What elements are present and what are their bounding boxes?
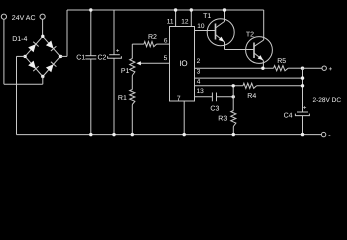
resistor R1 body	[130, 90, 135, 105]
wire pin 3 to output bus	[195, 77, 303, 79]
junction T2 emitter R5 line	[261, 67, 264, 70]
wire bridge left node out	[17, 55, 26, 57]
wire pin 4 to R4	[195, 85, 243, 87]
svg-text:2-28V DC: 2-28V DC	[313, 97, 342, 104]
svg-text:C4: C4	[284, 113, 293, 120]
wire C1 top	[90, 10, 92, 56]
wire bridge bottom node down	[42, 77, 44, 85]
svg-text:6: 6	[164, 37, 168, 44]
junction C1 bottom rail	[89, 133, 92, 136]
svg-text:R5: R5	[277, 58, 286, 65]
junction pin11 top rail	[174, 8, 177, 11]
wire T1 emitter to T2 base	[225, 49, 255, 51]
regulator IC U1 (IO) box	[170, 27, 195, 102]
svg-text:11: 11	[167, 19, 174, 26]
T2 emitter diagonal	[254, 53, 263, 60]
svg-text:R2: R2	[148, 34, 157, 41]
wire R2 corner down to pot	[131, 44, 133, 58]
terminal output plus	[322, 66, 326, 70]
wire left terminal down	[3, 19, 5, 84]
capacitor C2	[109, 54, 120, 56]
junction pin12 top rail	[190, 8, 193, 11]
capacitor C3	[211, 93, 213, 102]
bridge edge wire left-bottom	[25, 56, 43, 76]
wire pin4 node down to R3	[232, 86, 234, 111]
wire pot to R1	[131, 76, 133, 90]
bridge edge wire bottom-right	[43, 56, 61, 76]
T2 base bar	[253, 43, 255, 59]
bridge edge wire left-top	[25, 36, 43, 56]
node bridge top	[41, 35, 44, 38]
junction bus pin3 line	[301, 76, 304, 79]
svg-text:C3: C3	[210, 106, 219, 113]
junction C1 top rail	[89, 8, 92, 11]
svg-text:P1: P1	[121, 68, 130, 75]
svg-text:2: 2	[197, 58, 201, 65]
svg-text:10: 10	[197, 23, 205, 30]
wire pin 10 to T1 base	[195, 30, 216, 32]
wire R1 bottom	[131, 105, 133, 135]
wire pin 7	[183, 101, 185, 135]
svg-text:5: 5	[164, 55, 168, 62]
wire C1 bottom	[90, 59, 92, 135]
wire top rail	[67, 9, 264, 11]
svg-text:7: 7	[177, 96, 181, 103]
T1 collector diagonal	[216, 22, 225, 29]
svg-text:IO: IO	[179, 59, 187, 68]
wire pin5 to wiper	[141, 62, 170, 64]
svg-text:R4: R4	[247, 93, 256, 100]
capacitor C4	[297, 111, 308, 113]
wire C2 bottom	[113, 58, 115, 134]
T1 emitter arrowhead	[219, 37, 225, 42]
svg-text:R1: R1	[118, 95, 127, 102]
terminal output minus	[321, 132, 325, 136]
junction R1 bottom rail	[131, 133, 134, 136]
junction C2 bottom rail	[112, 133, 115, 136]
transistor T2 circle	[246, 37, 273, 64]
svg-text:C1: C1	[76, 55, 85, 62]
svg-text:4: 4	[197, 78, 201, 85]
wire output bus down	[302, 68, 304, 112]
svg-text:+: +	[116, 48, 120, 54]
T1 collector riser	[224, 10, 226, 22]
wire pin 11	[175, 10, 177, 27]
wire to plus terminal	[303, 67, 323, 69]
svg-text:D1-4: D1-4	[12, 36, 27, 43]
T2 collector riser	[263, 10, 265, 40]
junction T1 collector top rail	[223, 8, 226, 11]
wire pot top to R2	[132, 43, 144, 45]
svg-text:T1: T1	[203, 13, 211, 20]
T1 emitter diagonal	[216, 35, 225, 42]
wire bridge right node out	[61, 55, 68, 57]
wire R3 bottom	[232, 127, 234, 135]
diode D3 (left-bottom edge)	[28, 61, 36, 69]
wire bottom rail	[17, 134, 322, 136]
diode D2 (top-right edge)	[46, 41, 54, 49]
wire left terminal to bridge bottom	[4, 83, 43, 85]
wire C3 to node	[217, 96, 234, 98]
wire right terminal to bridge top	[42, 19, 44, 36]
junction C3 R3 node	[232, 95, 235, 98]
wire pin 13 to C3	[195, 96, 213, 98]
wire T2 emitter down	[262, 60, 264, 68]
resistor R5 body	[274, 66, 289, 71]
terminal AC input right	[40, 14, 45, 19]
circuit schematic: 24V AC to 2-28V DC regulated power supply	[0, 0, 347, 146]
potentiometer P1 body	[130, 59, 135, 76]
bridge edge wire top-right	[43, 36, 61, 56]
T2 collector diagonal	[254, 40, 264, 47]
resistor R2 body	[144, 42, 157, 47]
junction R3 bottom rail	[232, 133, 235, 136]
wiper arrowhead P1	[136, 61, 141, 65]
wire R5 to output node	[288, 67, 302, 69]
wire T1 emitter down	[224, 42, 226, 50]
svg-text:C2: C2	[98, 55, 107, 62]
svg-text:T2: T2	[246, 31, 254, 38]
wire C2 top	[113, 10, 115, 55]
resistor R4 body	[243, 83, 257, 88]
wire minus bus down to bottom rail	[16, 56, 18, 134]
capacitor C1	[85, 55, 96, 57]
wire R2 to pin6	[157, 43, 170, 45]
svg-text:24V AC: 24V AC	[12, 15, 36, 22]
transistor T1 circle	[207, 19, 234, 46]
svg-text:+: +	[303, 106, 307, 112]
node bridge left	[23, 55, 26, 58]
junction C4 bottom rail	[301, 133, 304, 136]
junction pin4 line node	[232, 84, 235, 87]
wire plus riser to top rail	[66, 10, 68, 56]
svg-text:13: 13	[197, 88, 205, 95]
T1 base bar	[215, 24, 217, 40]
wire R4 to output bus	[257, 85, 303, 87]
wire pin 2 to R5	[195, 67, 274, 69]
junction pin7 bottom rail	[183, 133, 186, 136]
junction output node	[301, 67, 304, 70]
resistor R3 body	[231, 111, 236, 127]
node bridge right	[59, 55, 62, 58]
junction bus pin4 line	[301, 84, 304, 87]
wire C4 bottom	[302, 116, 304, 135]
svg-text:R3: R3	[218, 116, 227, 123]
node bridge bottom	[41, 75, 44, 78]
T2 emitter arrowhead	[258, 55, 264, 60]
svg-text:3: 3	[197, 69, 201, 76]
wire pin 12	[190, 10, 192, 27]
svg-text:12: 12	[181, 19, 189, 26]
terminal AC input left	[1, 14, 6, 19]
diode D1 (left-top edge)	[28, 44, 36, 52]
svg-text:+: +	[329, 66, 333, 73]
diode D4 (bottom-right edge)	[46, 64, 54, 72]
